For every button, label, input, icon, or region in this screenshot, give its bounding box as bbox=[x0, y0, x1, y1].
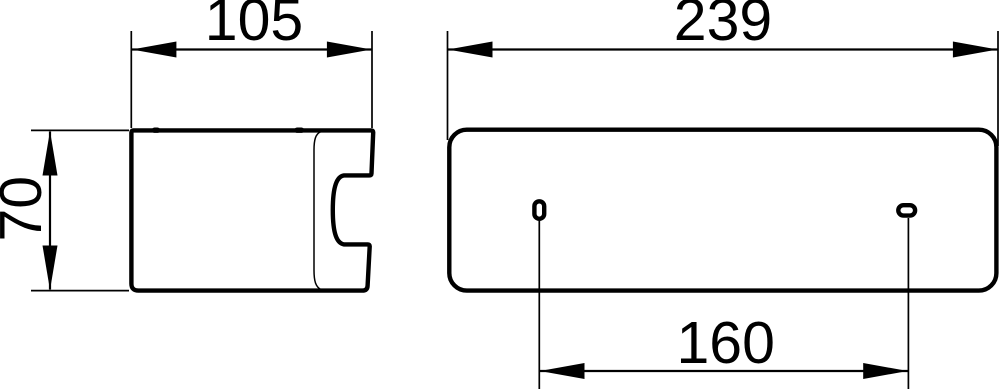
svg-text:239: 239 bbox=[674, 0, 772, 53]
left hole bbox=[534, 201, 544, 219]
dim 239 arrows bbox=[448, 42, 493, 58]
dim 105 line bbox=[132, 48, 373, 50]
dim 160 line bbox=[539, 370, 908, 372]
side view inner edge bbox=[314, 132, 322, 290]
dim 105 ext lines bbox=[131, 31, 372, 128]
dim 160 arrows bbox=[540, 363, 585, 379]
dim 70 line bbox=[49, 132, 51, 290]
side view outline bbox=[131, 130, 373, 290]
dim 239 ext lines bbox=[448, 31, 999, 146]
dim 70 arrows bbox=[43, 131, 58, 176]
dim 105 arrows bbox=[132, 42, 177, 58]
svg-text:105: 105 bbox=[205, 0, 303, 53]
front view outline bbox=[449, 130, 996, 291]
right hole bbox=[898, 205, 915, 215]
dim 239 line bbox=[448, 48, 999, 50]
edge join mark B bbox=[297, 127, 302, 132]
dim 160 ext lines bbox=[539, 218, 908, 389]
svg-text:160: 160 bbox=[676, 310, 774, 376]
dim 70 ext lines bbox=[31, 130, 129, 290]
svg-text:70: 70 bbox=[0, 176, 54, 242]
edge join mark A bbox=[155, 127, 158, 132]
